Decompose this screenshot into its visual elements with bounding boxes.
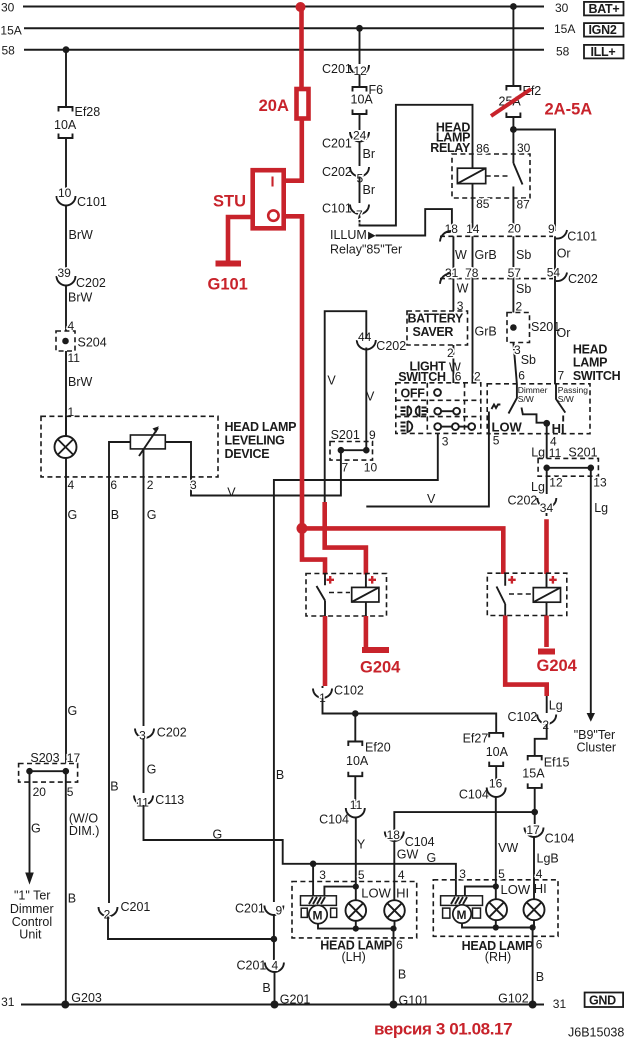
wire S201-12 to C202-34 (531, 468, 563, 494)
svg-text:C202: C202 (508, 494, 538, 508)
svg-text:B: B (276, 768, 284, 782)
svg-text:LOW: LOW (501, 882, 531, 897)
wire Y to LH low (356, 818, 366, 887)
connector C101 pin 7 (322, 202, 369, 223)
svg-text:9: 9 (369, 428, 376, 442)
left aux relay box (306, 574, 387, 617)
label LOW (492, 420, 523, 448)
wire Br 2 (360, 177, 376, 204)
splice S201 lower right (538, 446, 598, 477)
svg-text:10: 10 (364, 461, 378, 475)
svg-text:S/W: S/W (518, 394, 534, 404)
svg-text:6: 6 (536, 938, 543, 952)
svg-text:30: 30 (1, 0, 15, 14)
svg-text:"1" Ter: "1" Ter (14, 889, 50, 903)
svg-text:G201: G201 (280, 993, 311, 1007)
svg-text:18: 18 (445, 222, 459, 236)
light switch box (396, 383, 481, 434)
svg-text:B: B (262, 981, 270, 995)
wire W battery saver to light switch pin6 (447, 345, 462, 384)
label 30 right (555, 1, 569, 15)
svg-text:Ef15: Ef15 (544, 756, 570, 770)
svg-text:LOW: LOW (361, 886, 391, 901)
svg-text:6: 6 (396, 938, 403, 952)
wire G leveling pin4 down (66, 477, 77, 764)
wire F6 to C201-24 (359, 114, 361, 130)
svg-text:V: V (427, 492, 436, 506)
svg-text:DEVICE: DEVICE (225, 447, 270, 461)
dimmer switch (366, 384, 546, 507)
svg-text:G: G (147, 508, 157, 522)
label LIGHT SWITCH (398, 360, 446, 385)
wire G leveling pin2 down (144, 477, 157, 726)
svg-text:C101: C101 (567, 230, 597, 244)
svg-text:2: 2 (147, 478, 154, 492)
svg-text:Y: Y (357, 838, 366, 852)
svg-text:G: G (68, 508, 78, 522)
connector C104 pin 17 (525, 823, 575, 846)
svg-text:BAT+: BAT+ (589, 2, 620, 16)
red wire right switch to C102-2 (505, 616, 547, 697)
svg-text:2: 2 (516, 300, 523, 314)
right aux relay box (487, 573, 567, 615)
splice S204 (56, 319, 107, 365)
label J6B15038 (568, 1026, 624, 1040)
battery saver box (407, 311, 468, 345)
svg-text:6: 6 (518, 369, 525, 383)
ILLUM reference arrow (330, 228, 402, 257)
svg-text:Unit: Unit (19, 928, 42, 942)
leveling lamp (55, 416, 77, 477)
wire Ef15 to node (534, 788, 536, 825)
ground node G101b (390, 994, 430, 1009)
left relay plus marks (327, 576, 377, 584)
connector C202 pin 44 (357, 330, 406, 353)
wire Ef15 to C104-18 (394, 812, 534, 830)
RH head lamp box (433, 880, 558, 964)
svg-text:5: 5 (498, 867, 505, 881)
svg-text:S204: S204 (78, 336, 107, 350)
right relay coil (533, 573, 560, 615)
svg-text:VW: VW (498, 841, 518, 855)
LH LOW lamp (346, 887, 367, 921)
left relay switch (317, 574, 326, 617)
connector C104 pin 16 (459, 777, 506, 802)
svg-text:G102: G102 (498, 992, 529, 1006)
node Ef2 output (510, 126, 517, 133)
svg-text:15A: 15A (522, 767, 545, 781)
fuse Ef20 10A (346, 741, 391, 777)
red wire V to left relay coil (325, 502, 366, 575)
svg-text:78: 78 (465, 266, 479, 280)
svg-text:C202: C202 (76, 276, 106, 290)
svg-text:C104: C104 (545, 832, 575, 846)
head lamp leveling device box (41, 416, 296, 477)
svg-text:G203: G203 (71, 991, 102, 1005)
node Ef15 split (531, 809, 538, 816)
svg-text:G: G (147, 763, 157, 777)
svg-text:C201: C201 (322, 62, 352, 76)
svg-text:57: 57 (508, 266, 522, 280)
connector C202 pin 39 (57, 266, 106, 290)
leveling pin labels (68, 478, 198, 492)
connector C102 pin 2 (508, 710, 557, 732)
svg-text:IGN2: IGN2 (589, 23, 617, 37)
svg-text:G: G (31, 822, 41, 836)
svg-text:11: 11 (350, 798, 363, 812)
wire Ef20 to C104-11 (354, 776, 356, 806)
head lamp switch box (487, 384, 590, 434)
red wire right coil to G204 (544, 616, 549, 648)
svg-text:31: 31 (1, 995, 15, 1009)
connector C104 pin 18 (385, 828, 435, 849)
red wire bus30 to 20A fuse (299, 7, 304, 88)
connector C201 pin 12 (322, 62, 369, 78)
box GND (585, 993, 624, 1008)
wire Br (360, 142, 376, 167)
svg-text:Sb: Sb (521, 353, 536, 367)
svg-text:31: 31 (553, 997, 567, 1011)
svg-text:Lg: Lg (594, 501, 608, 515)
svg-text:4: 4 (398, 868, 405, 882)
svg-text:4: 4 (272, 959, 279, 973)
label 31 right (553, 997, 567, 1011)
connector C201 pin 4 (237, 959, 284, 973)
connector C202 pin 34 (508, 494, 557, 518)
fuse Ef2 25A (499, 84, 542, 117)
node B join (271, 936, 278, 943)
svg-text:S/W: S/W (558, 394, 574, 404)
svg-text:5: 5 (493, 434, 500, 448)
svg-text:BrW: BrW (68, 375, 93, 389)
red node distribution (297, 523, 308, 534)
svg-text:5: 5 (67, 785, 74, 799)
ground node G102 (498, 992, 536, 1009)
svg-text:3: 3 (319, 868, 326, 882)
svg-text:GrB: GrB (475, 248, 497, 262)
park lamp icon (401, 406, 427, 416)
junction on bus 30 (510, 3, 517, 10)
wire Ef2 to junction (512, 117, 514, 130)
svg-text:3: 3 (190, 478, 197, 492)
svg-text:LOW: LOW (492, 420, 523, 435)
LH ground bus (318, 921, 397, 932)
fuse Ef28 10A (54, 105, 100, 138)
svg-text:7: 7 (356, 208, 363, 222)
label pin 85 (476, 197, 490, 211)
svg-text:S201: S201 (531, 320, 560, 334)
svg-text:85: 85 (476, 197, 490, 211)
label 30 left (1, 0, 15, 14)
svg-text:C202: C202 (322, 165, 352, 179)
connector C202 pin 5 (322, 165, 369, 186)
svg-text:30: 30 (555, 1, 569, 15)
splice S201 mid (V distribution) (330, 428, 377, 475)
svg-text:C104: C104 (319, 813, 349, 827)
wire VW to RH low (496, 797, 519, 887)
svg-text:11: 11 (68, 351, 81, 365)
label 1 Ter Dimmer Control Unit (10, 889, 54, 942)
red wire STU to G101 (228, 217, 251, 261)
wire ILLUM to connector 18 (376, 209, 452, 235)
svg-text:STU: STU (213, 193, 246, 211)
RH LOW lamp (486, 887, 507, 921)
svg-text:34: 34 (540, 501, 554, 515)
svg-text:BrW: BrW (69, 228, 94, 242)
splice S201 upper (507, 313, 560, 343)
box IGN2 (584, 23, 624, 37)
label Passing S/W (558, 385, 589, 404)
svg-text:C101: C101 (77, 195, 107, 209)
svg-text:(RH): (RH) (485, 950, 511, 964)
svg-text:W: W (457, 282, 469, 296)
wire C102-2 down to Ef15 (535, 724, 547, 756)
svg-text:C101: C101 (322, 202, 352, 216)
svg-text:18: 18 (387, 828, 401, 842)
wire GW to LH HI (394, 841, 418, 900)
svg-text:13: 13 (593, 475, 607, 489)
svg-text:HEAD LAMP: HEAD LAMP (225, 420, 297, 434)
svg-text:16: 16 (489, 777, 503, 791)
node G to LH lamp (310, 861, 317, 868)
label version red (374, 1020, 512, 1039)
head lamp relay box (452, 154, 530, 198)
wire W row1-row2 (453, 236, 467, 278)
ground G204 right (537, 652, 578, 676)
svg-text:LEVELING: LEVELING (225, 434, 285, 448)
red wire to right relay switch (302, 528, 503, 574)
svg-text:Or: Or (557, 247, 571, 261)
wire C102-1 to fuse feed (323, 698, 497, 733)
svg-text:G101: G101 (399, 994, 430, 1008)
svg-text:2: 2 (447, 346, 454, 360)
wire S201-7 to leveling pin3 V (191, 450, 341, 499)
wire GrB row2 to light switch pin2 (473, 279, 497, 383)
connector C201 pin 2 (99, 900, 151, 922)
wire BrW 2 (66, 286, 93, 332)
wire C202-44 loop to left relay (325, 311, 367, 502)
wire Ef28 to C101-10 (65, 138, 67, 195)
svg-text:87: 87 (517, 198, 531, 212)
red wire STU O output (286, 216, 302, 528)
svg-text:30: 30 (517, 141, 531, 155)
red wire left switch to C102-1 (323, 616, 328, 686)
svg-text:58: 58 (556, 44, 570, 58)
svg-text:7: 7 (558, 369, 565, 383)
label HEAD LAMP RELAY (430, 121, 471, 156)
svg-text:C102: C102 (508, 710, 538, 724)
junction on bus 58 (63, 46, 70, 53)
wire S203-20 to dimmer control unit (25, 771, 41, 884)
svg-text:Cluster: Cluster (577, 741, 617, 755)
junction on bus 15A (356, 25, 363, 32)
svg-text:54: 54 (547, 266, 561, 280)
svg-text:6: 6 (110, 478, 117, 492)
label 2A-5A red (545, 101, 593, 119)
fuse Ef15 15A (522, 756, 569, 788)
svg-text:Lg: Lg (531, 480, 545, 494)
svg-text:B: B (68, 892, 76, 906)
wire S203-5 to G203 (66, 771, 100, 1004)
RH leveling motor (441, 896, 483, 923)
left relay link (329, 592, 350, 594)
wire bus15A to C201-12 (359, 28, 361, 64)
ground G101 (208, 264, 248, 294)
RH HI lamp (524, 899, 545, 920)
svg-text:C113: C113 (155, 793, 184, 807)
svg-text:Ef28: Ef28 (75, 105, 101, 119)
wire B to G201 (262, 972, 274, 1005)
light switch contact row2 (434, 408, 460, 415)
svg-text:86: 86 (476, 142, 490, 156)
svg-text:14: 14 (466, 222, 480, 236)
fuse F6 10A (351, 83, 384, 114)
svg-text:LgB: LgB (537, 852, 559, 866)
svg-text:Sb: Sb (516, 282, 531, 296)
svg-text:9: 9 (548, 222, 555, 236)
label pin 87 (517, 198, 531, 212)
svg-text:G204: G204 (537, 657, 578, 675)
ground node G203 (61, 991, 102, 1009)
svg-text:Lg: Lg (531, 446, 545, 460)
svg-text:10A: 10A (351, 93, 374, 107)
right relay switch (497, 573, 506, 615)
svg-text:39: 39 (58, 266, 72, 280)
potentiometer (109, 426, 191, 477)
relay coil (457, 168, 485, 183)
svg-text:B: B (110, 780, 118, 794)
svg-text:C201: C201 (121, 900, 151, 914)
label 31 left (1, 995, 15, 1009)
svg-text:G101: G101 (208, 276, 248, 294)
fuse Ef27 10A (463, 732, 509, 767)
box ILL+ (584, 45, 624, 59)
connector C202 pin 3 (135, 726, 187, 743)
label OFF (401, 387, 426, 401)
LH pin labels (319, 868, 409, 901)
svg-text:C201: C201 (322, 137, 352, 151)
svg-text:G: G (68, 704, 78, 718)
node HI (543, 420, 564, 436)
svg-text:44: 44 (358, 330, 372, 344)
connector C113 pin 11 (134, 793, 184, 810)
red wire to left relay switch (302, 528, 325, 574)
svg-text:BrW: BrW (68, 291, 93, 305)
relay link dashed (486, 175, 508, 177)
bus line 15A (24, 27, 544, 29)
wire C201-2 to junction (108, 917, 274, 940)
svg-text:B: B (398, 968, 406, 982)
svg-text:S201: S201 (331, 428, 360, 442)
red wire left coil to G204 (364, 616, 369, 647)
RH wire pin3 (455, 880, 457, 896)
ground node G201 (271, 993, 311, 1009)
wire C201-9 to junction (273, 915, 275, 960)
wire LgB to RH HI (534, 837, 559, 900)
RH ground bus (462, 920, 536, 930)
svg-text:SWITCH: SWITCH (573, 369, 621, 383)
wire B column label (276, 768, 284, 782)
svg-text:3: 3 (442, 435, 449, 449)
svg-text:Lg: Lg (549, 699, 563, 713)
svg-text:3: 3 (459, 867, 466, 881)
svg-text:G: G (427, 851, 437, 865)
red fuse 20A (259, 89, 309, 119)
label pin 86 (476, 142, 490, 156)
RH pin labels (459, 867, 547, 897)
svg-text:C202: C202 (376, 339, 406, 353)
LH head lamp box (292, 882, 417, 965)
svg-text:10A: 10A (346, 754, 369, 768)
left relay coil (352, 574, 379, 617)
label pin 2 light switch (474, 370, 481, 384)
right relay plus marks (508, 576, 557, 584)
wire C101-7 to relay pin 86 (360, 105, 473, 226)
svg-text:Sb: Sb (516, 248, 531, 262)
svg-text:4: 4 (68, 478, 75, 492)
label pin 7 passing (558, 369, 565, 383)
wire Sb row2 to S201 (513, 279, 531, 314)
wire G to C113 (144, 738, 157, 793)
svg-text:2A-5A: 2A-5A (545, 101, 593, 119)
svg-text:20: 20 (508, 222, 522, 236)
svg-text:G: G (213, 828, 223, 842)
node Ef20 branch (352, 710, 359, 717)
wire C102-2 to Ef15 (547, 696, 563, 713)
LH wire pin6 to G101 (394, 929, 407, 1005)
svg-text:10A: 10A (54, 118, 77, 132)
head lamp icon (401, 421, 413, 432)
svg-text:9: 9 (276, 904, 283, 918)
svg-text:58: 58 (2, 44, 16, 58)
label Dimmer S/W (518, 385, 548, 404)
svg-text:C201: C201 (237, 959, 267, 973)
wire Sb row1-row2 (513, 236, 531, 278)
svg-text:6: 6 (455, 370, 462, 384)
connector C102 pin 1 (313, 684, 364, 706)
svg-text:HI: HI (396, 886, 409, 901)
svg-text:Br: Br (363, 183, 376, 197)
svg-text:B: B (536, 970, 544, 984)
svg-text:LAMP: LAMP (573, 356, 607, 370)
bus line 58 (24, 49, 544, 51)
svg-text:OFF: OFF (401, 387, 426, 401)
svg-text:Dimmer: Dimmer (10, 902, 54, 916)
relay switch pin30 (513, 130, 522, 232)
connector C101 pin 10 (57, 186, 107, 209)
label 15A left (0, 23, 21, 37)
svg-text:GND: GND (589, 994, 616, 1008)
LH HI lamp (384, 900, 405, 921)
label 15A right (554, 22, 575, 36)
wire junction to Or column (513, 130, 555, 232)
svg-text:17: 17 (526, 823, 540, 837)
passing switch (556, 384, 565, 422)
wire to Ef20 (354, 714, 356, 742)
svg-text:Br: Br (363, 147, 376, 161)
svg-text:15A: 15A (0, 23, 21, 37)
svg-text:V: V (366, 390, 375, 404)
svg-text:ILLUM.: ILLUM. (330, 228, 370, 242)
LH node pin5 (324, 884, 359, 896)
svg-text:SAVER: SAVER (413, 325, 454, 339)
svg-text:C201: C201 (235, 902, 265, 916)
svg-text:24: 24 (353, 129, 367, 143)
svg-text:Ef27: Ef27 (463, 732, 489, 746)
red node on bus 30 (296, 2, 306, 12)
svg-text:(LH): (LH) (342, 950, 366, 964)
connector C201 pin 9 (235, 902, 283, 918)
